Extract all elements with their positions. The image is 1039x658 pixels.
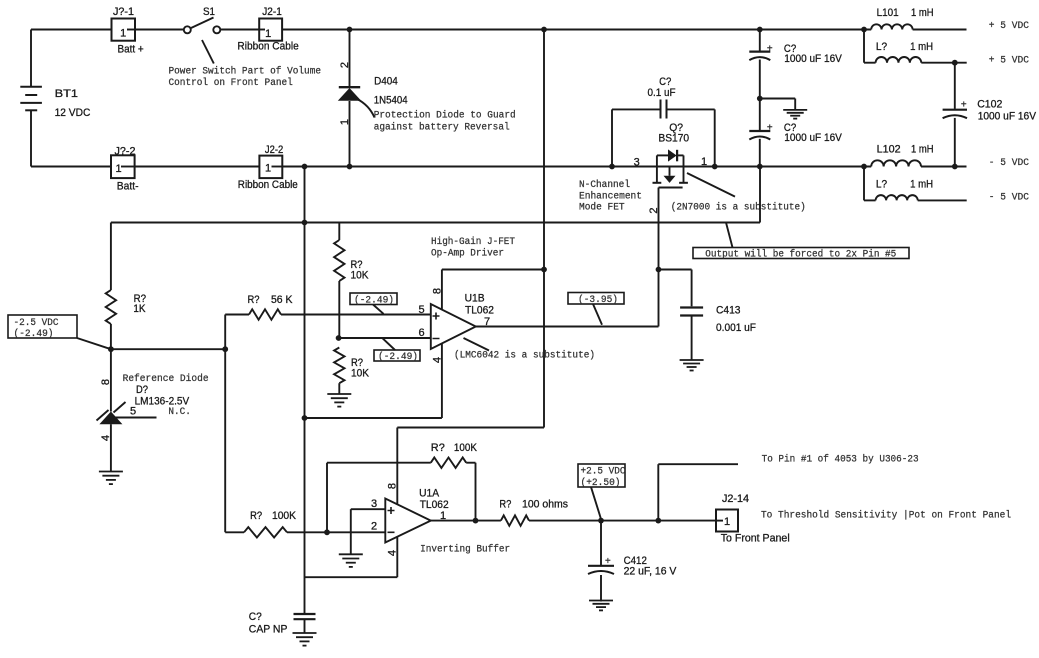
wire to pin1 4053 xyxy=(658,464,738,520)
pin 4 D? xyxy=(100,435,112,441)
svg-text:2: 2 xyxy=(339,62,351,68)
svg-text:N-Channel: N-Channel xyxy=(579,179,630,191)
svg-text:Power Switch Part of Volume: Power Switch Part of Volume xyxy=(169,66,322,78)
wire ref node to 56K xyxy=(111,348,225,350)
junction V+ pin8 xyxy=(541,267,547,273)
svg-text:(-2.49): (-2.49) xyxy=(14,328,54,340)
junction cap column bottom xyxy=(757,164,763,170)
svg-text:1: 1 xyxy=(115,163,121,175)
diode D? LM136-2.5V xyxy=(97,349,190,471)
svg-text:+: + xyxy=(767,124,773,135)
resistor R? 1K xyxy=(106,223,146,350)
svg-text:LM136-2.5V: LM136-2.5V xyxy=(135,396,190,408)
svg-text:C102: C102 xyxy=(977,98,1002,110)
svg-text:Batt-: Batt- xyxy=(117,181,139,193)
pin 2 D404 xyxy=(339,62,351,68)
svg-text:+ 5 VDC: + 5 VDC xyxy=(989,55,1029,66)
svg-text:1000 uF 16V: 1000 uF 16V xyxy=(784,53,842,65)
pointer (-2.49) lower xyxy=(383,338,395,350)
svg-text:1 mH: 1 mH xyxy=(911,144,934,156)
svg-text:L102: L102 xyxy=(877,144,901,156)
svg-text:+: + xyxy=(767,45,773,56)
svg-text:(2N7000 is a substitute): (2N7000 is a substitute) xyxy=(671,202,806,214)
svg-text:10K: 10K xyxy=(351,368,370,380)
wire C413 branch xyxy=(659,270,692,307)
net +5VDC row2 xyxy=(989,55,1029,66)
svg-text:+ 5 VDC: + 5 VDC xyxy=(989,21,1029,32)
pin 1 U1A xyxy=(440,510,446,522)
svg-text:To Threshold Sensitivity |Pot: To Threshold Sensitivity |Pot on Front P… xyxy=(761,510,1011,522)
ground C412 xyxy=(589,601,613,611)
junction C412 node xyxy=(598,518,604,524)
ground CAP NP xyxy=(293,633,317,646)
note high gain jfet xyxy=(431,236,515,260)
node -2.5VDC box xyxy=(8,315,77,340)
battery BT1 xyxy=(20,30,90,167)
wire U1B output xyxy=(476,326,659,328)
pointer output forced xyxy=(726,223,733,248)
svg-text:100K: 100K xyxy=(272,510,297,522)
svg-text:1000 uF 16V: 1000 uF 16V xyxy=(784,132,842,144)
note to pin1 4053 xyxy=(762,454,919,466)
capacitor C? CAP NP xyxy=(249,611,316,636)
junction gate C413 branch xyxy=(656,267,662,273)
wire filter caps column xyxy=(759,30,761,167)
svg-text:1: 1 xyxy=(265,28,271,40)
wire battery+ top rail xyxy=(31,29,967,31)
note reference diode xyxy=(123,373,209,385)
svg-text:1: 1 xyxy=(339,119,351,125)
svg-text:R?: R? xyxy=(499,499,511,511)
note 2N7000 xyxy=(671,202,806,214)
junction C102 top xyxy=(952,60,958,66)
svg-text:(-2.49): (-2.49) xyxy=(378,351,418,363)
resistor R? 100K input xyxy=(225,510,385,538)
svg-text:S1: S1 xyxy=(203,6,215,18)
ground filter caps xyxy=(783,110,807,119)
wire 56K node down to U1A input xyxy=(224,349,226,532)
svg-text:1: 1 xyxy=(120,28,126,40)
junction cap column top xyxy=(757,27,763,33)
svg-text:J2-1: J2-1 xyxy=(262,6,282,18)
pin 8 U1A xyxy=(387,483,399,489)
junction L102 right xyxy=(952,164,958,170)
svg-text:To Pin #1 of 4053 by U306-23: To Pin #1 of 4053 by U306-23 xyxy=(762,454,919,466)
pointer (-3.95) xyxy=(593,304,602,325)
svg-text:U1A: U1A xyxy=(419,488,440,500)
svg-text:C413: C413 xyxy=(716,304,741,316)
connector J2-2 Ribbon Cable xyxy=(238,144,298,191)
node (-3.95) box xyxy=(568,293,624,306)
svg-text:against battery Reversal: against battery Reversal xyxy=(374,122,510,134)
resistor R? 56K xyxy=(225,294,431,349)
svg-text:12 VDC: 12 VDC xyxy=(55,107,91,119)
junction top rail V+ column xyxy=(541,27,547,33)
diode D404 1N5404 xyxy=(338,30,408,167)
wire ribbon- to bias xyxy=(304,167,306,614)
note output forced box xyxy=(693,248,909,261)
svg-text:+: + xyxy=(605,557,611,568)
junction bias line x304 xyxy=(302,220,308,226)
svg-text:+2.5 VDC: +2.5 VDC xyxy=(581,467,626,478)
note protection diode xyxy=(374,110,516,134)
note NC xyxy=(168,407,191,418)
svg-text:- 5 VDC: - 5 VDC xyxy=(989,192,1029,203)
junction feedback input xyxy=(324,529,330,535)
inductor L? 1mH lower xyxy=(876,179,934,201)
svg-text:8: 8 xyxy=(100,379,112,385)
pin 4 U1B xyxy=(431,343,443,418)
resistor R? 100K feedback xyxy=(327,442,477,532)
svg-text:BS170: BS170 xyxy=(658,132,689,144)
pin 8 U1B xyxy=(431,270,443,311)
ground C413 xyxy=(680,360,704,371)
junction feedback output xyxy=(473,518,479,524)
wire battery- bottom rail xyxy=(31,166,967,168)
capacitor C? 0.1uF xyxy=(612,76,715,167)
svg-text:Enhancement: Enhancement xyxy=(579,190,642,202)
pin 2 Q? xyxy=(648,207,660,213)
pointer 2N7000 note xyxy=(687,173,735,197)
pointer -2.5VDC xyxy=(77,338,111,349)
svg-text:L?: L? xyxy=(876,179,887,191)
junction top rail D404 xyxy=(347,27,353,33)
svg-text:U1B: U1B xyxy=(465,292,485,304)
svg-text:100K: 100K xyxy=(454,442,478,454)
pointer +2.5VDC xyxy=(591,487,601,519)
svg-text:Mode FET: Mode FET xyxy=(579,202,625,214)
svg-text:2: 2 xyxy=(371,520,377,532)
note LMC6042 xyxy=(454,350,595,362)
wire U1B pin4 rail xyxy=(305,417,442,419)
junction ref node xyxy=(108,346,114,352)
wire U1A pin4 to ribbon- xyxy=(305,576,398,578)
net -5VDC row1 xyxy=(989,158,1029,169)
junction FET drain rail xyxy=(712,164,718,170)
svg-text:1: 1 xyxy=(701,156,707,168)
inductor L? 1mH upper xyxy=(876,41,934,63)
connector J2-1 Ribbon Cable xyxy=(237,6,298,53)
svg-text:56 K: 56 K xyxy=(271,294,293,306)
inductor L102 1mH xyxy=(871,144,933,167)
junction L? top branch xyxy=(861,27,867,33)
svg-text:Op-Amp Driver: Op-Amp Driver xyxy=(431,248,504,260)
ground U1A pin3 xyxy=(339,554,363,567)
junction L? bottom branch xyxy=(861,164,867,170)
svg-text:+: + xyxy=(961,101,967,112)
svg-text:BT1: BT1 xyxy=(55,88,78,100)
svg-text:1: 1 xyxy=(724,516,730,528)
wire L? top branch xyxy=(864,30,967,63)
pin 5 D? xyxy=(130,406,136,418)
svg-text:R?: R? xyxy=(431,442,445,454)
connector J2-14 xyxy=(716,493,790,545)
node (-2.49) lower box xyxy=(374,350,420,363)
junction pin6 node xyxy=(336,335,342,341)
svg-text:CAP NP: CAP NP xyxy=(249,624,288,636)
svg-text:Output will be forced to 2x Pi: Output will be forced to 2x Pin #5 xyxy=(705,248,896,260)
svg-text:5: 5 xyxy=(130,406,136,418)
svg-text:TL062: TL062 xyxy=(420,499,449,511)
svg-text:Protection Diode to Guard: Protection Diode to Guard xyxy=(374,110,516,122)
connector J2-1 Batt+ xyxy=(112,6,144,55)
note N-channel FET xyxy=(579,179,642,214)
ground 10K xyxy=(327,394,351,407)
junction ground stub xyxy=(757,96,763,102)
op-amp U1B TL062 xyxy=(431,292,494,349)
svg-text:Ribbon Cable: Ribbon Cable xyxy=(237,41,298,53)
svg-text:J2-2: J2-2 xyxy=(265,144,283,156)
note threshold sensitivity xyxy=(761,510,1011,522)
svg-text:L?: L? xyxy=(876,41,887,53)
capacitor C412 22uF xyxy=(588,521,677,602)
wire bias line xyxy=(111,167,760,223)
pointer to S1 note xyxy=(202,40,214,64)
junction 56K branch xyxy=(222,346,228,352)
svg-text:1: 1 xyxy=(265,163,271,175)
svg-text:C?: C? xyxy=(249,611,262,623)
svg-text:8: 8 xyxy=(387,483,399,489)
pin 5 U1B xyxy=(419,304,425,316)
svg-text:10K: 10K xyxy=(351,270,370,282)
pin 8 D? xyxy=(100,379,112,385)
svg-text:R?: R? xyxy=(248,294,260,306)
svg-text:-2.5 VDC: -2.5 VDC xyxy=(14,318,59,329)
wire ground stub xyxy=(760,99,795,110)
svg-text:R?: R? xyxy=(250,510,262,522)
ground LM136 xyxy=(99,472,123,485)
svg-text:1K: 1K xyxy=(133,303,146,315)
svg-text:3: 3 xyxy=(371,498,377,510)
wire U1A output xyxy=(431,520,716,522)
svg-text:- 5 VDC: - 5 VDC xyxy=(989,158,1029,169)
junction ribbon- rail xyxy=(302,164,308,170)
svg-text:1 mH: 1 mH xyxy=(910,179,933,191)
svg-text:0.001 uF: 0.001 uF xyxy=(716,322,756,334)
svg-text:J2-14: J2-14 xyxy=(722,493,749,505)
svg-text:6: 6 xyxy=(419,327,425,339)
note power switch xyxy=(169,66,322,90)
junction FET source rail xyxy=(609,164,615,170)
resistor R? 100 ohms xyxy=(499,499,568,526)
capacitor C102 1000uF xyxy=(943,63,1037,167)
svg-text:L101: L101 xyxy=(877,7,899,19)
svg-text:Inverting Buffer: Inverting Buffer xyxy=(420,544,510,556)
svg-text:100 ohms: 100 ohms xyxy=(522,499,568,511)
resistor R? 10K upper xyxy=(334,223,369,339)
connector J2-2 Batt- xyxy=(111,146,139,193)
wire pin6 xyxy=(339,337,431,339)
note inverting buffer xyxy=(420,544,510,556)
inductor L101 1mH xyxy=(871,7,933,30)
svg-text:22 uF, 16 V: 22 uF, 16 V xyxy=(624,565,677,577)
svg-text:5: 5 xyxy=(419,304,425,316)
pin 3 Q? xyxy=(634,156,640,168)
capacitor C? 1000uF lower xyxy=(749,122,842,144)
svg-text:1 mH: 1 mH xyxy=(911,7,934,19)
pin 7 U1B xyxy=(484,316,490,328)
svg-text:To Front Panel: To Front Panel xyxy=(721,533,790,545)
pin 4 U1A xyxy=(387,537,399,578)
switch S1 xyxy=(184,6,221,34)
pointer LMC6042 xyxy=(464,338,490,351)
svg-text:3: 3 xyxy=(634,156,640,168)
wire L? bottom branch xyxy=(864,167,967,201)
svg-text:(+2.50): (+2.50) xyxy=(581,477,621,489)
op-amp U1A TL062 xyxy=(385,488,448,543)
pin 1 D404 xyxy=(339,119,351,125)
svg-text:1 mH: 1 mH xyxy=(910,41,933,53)
pin 3 U1A xyxy=(351,498,386,554)
svg-text:(-3.95): (-3.95) xyxy=(578,294,618,306)
node +2.5VDC box xyxy=(578,464,626,489)
resistor R? 10K lower xyxy=(334,348,370,394)
wire Q? gate to U1B output xyxy=(658,188,660,327)
junction J2-14 branch xyxy=(655,518,661,524)
wire U1B pin8 to V+ xyxy=(442,269,544,271)
pin 2 U1A xyxy=(371,520,377,532)
svg-text:D?: D? xyxy=(136,384,148,396)
svg-text:High-Gain J-FET: High-Gain J-FET xyxy=(431,236,515,248)
svg-text:Control on Front Panel: Control on Front Panel xyxy=(169,77,293,89)
svg-text:J?-1: J?-1 xyxy=(113,6,134,18)
svg-text:Batt +: Batt + xyxy=(118,43,144,55)
net +5VDC row1 xyxy=(989,21,1029,32)
svg-text:(LMC6042 is a substitute): (LMC6042 is a substitute) xyxy=(454,350,595,362)
wire V+ column xyxy=(397,30,544,505)
svg-text:0.1 uF: 0.1 uF xyxy=(648,87,676,99)
pointer (-2.49) upper xyxy=(373,305,384,314)
junction D404 rail- xyxy=(347,164,353,170)
pin 1 Q? xyxy=(701,156,707,168)
junction pin4 rail xyxy=(302,415,308,421)
capacitor C413 0.001uF xyxy=(680,304,756,359)
svg-text:Reference Diode: Reference Diode xyxy=(123,373,209,385)
net -5VDC row2 xyxy=(989,192,1029,203)
pointer D404 note xyxy=(357,99,375,118)
node (-2.49) upper box xyxy=(350,293,397,306)
svg-text:J?-2: J?-2 xyxy=(115,146,136,158)
svg-text:Ribbon Cable: Ribbon Cable xyxy=(238,179,298,191)
pin 6 U1B xyxy=(419,327,425,339)
svg-text:N.C.: N.C. xyxy=(168,407,191,418)
svg-text:1000 uF 16V: 1000 uF 16V xyxy=(978,111,1037,123)
svg-text:4: 4 xyxy=(100,435,112,441)
transistor Q? BS170 xyxy=(653,122,690,188)
svg-text:TL062: TL062 xyxy=(465,305,494,317)
capacitor C? 1000uF upper xyxy=(749,43,842,65)
svg-text:1N5404: 1N5404 xyxy=(374,95,408,107)
svg-text:D404: D404 xyxy=(374,76,398,88)
